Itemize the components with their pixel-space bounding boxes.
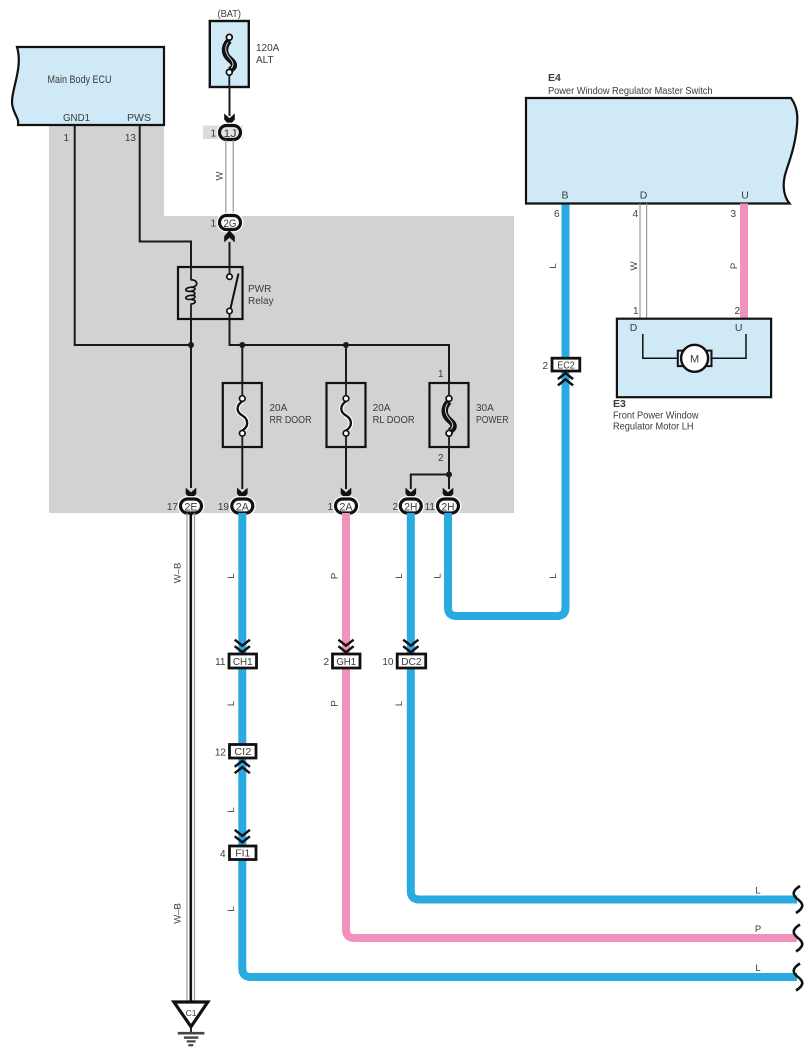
svg-text:1: 1	[438, 369, 444, 380]
W-B wire 2E to ground	[173, 513, 195, 1002]
svg-text:12: 12	[215, 748, 227, 759]
svg-text:2H: 2H	[442, 502, 455, 514]
svg-text:L: L	[226, 701, 237, 706]
svg-text:W: W	[215, 171, 226, 180]
svg-text:CH1: CH1	[233, 657, 253, 668]
svg-text:GH1: GH1	[336, 657, 356, 668]
ground C1	[174, 1002, 208, 1045]
svg-text:L: L	[226, 906, 237, 911]
svg-text:P: P	[755, 924, 761, 935]
svg-text:11: 11	[425, 502, 436, 513]
svg-text:2E: 2E	[185, 502, 198, 514]
chevron into FI1	[235, 830, 250, 843]
svg-text:M: M	[690, 354, 699, 366]
svg-text:POWER: POWER	[476, 415, 509, 426]
junction dot fuse RL DOOR	[343, 342, 349, 348]
svg-text:W–B: W–B	[173, 903, 184, 924]
svg-text:17: 17	[167, 502, 179, 513]
svg-text:10: 10	[382, 657, 394, 668]
svg-text:2A: 2A	[340, 502, 354, 514]
wire fuse RR DOOR to 2A	[241, 447, 243, 489]
wire relay switch to fuse row	[230, 319, 450, 383]
Main Body ECU box	[12, 47, 164, 125]
wire relay coil to connector 2E	[190, 319, 192, 488]
svg-text:120A: 120A	[256, 43, 280, 54]
junction dot coil/GND1	[188, 342, 194, 348]
svg-text:DC2: DC2	[401, 657, 422, 668]
wire 2G arrow to relay	[229, 242, 231, 267]
svg-text:1: 1	[633, 306, 639, 317]
fuse 30A POWER	[430, 369, 509, 464]
chevron up from EC2	[558, 373, 573, 385]
svg-text:EC2: EC2	[557, 360, 575, 371]
svg-text:4: 4	[632, 209, 638, 220]
continuation squiggle P	[794, 925, 803, 952]
svg-text:Regulator Motor LH: Regulator Motor LH	[613, 421, 694, 433]
svg-text:Main Body ECU: Main Body ECU	[48, 74, 112, 86]
svg-text:W: W	[629, 261, 640, 270]
svg-text:L: L	[394, 701, 405, 706]
svg-text:2: 2	[734, 306, 740, 317]
svg-text:L: L	[226, 573, 237, 578]
svg-text:1: 1	[210, 129, 216, 140]
svg-text:P: P	[330, 573, 341, 579]
PWR relay box	[178, 267, 274, 319]
svg-text:D: D	[640, 190, 648, 202]
svg-text:2: 2	[438, 453, 444, 464]
connector GH1	[323, 654, 360, 668]
svg-text:20A: 20A	[373, 403, 391, 414]
svg-text:P: P	[729, 263, 740, 269]
connector 1J	[210, 126, 240, 141]
svg-text:RL DOOR: RL DOOR	[373, 415, 415, 426]
connector DC2	[382, 654, 425, 668]
junction dot below fuse POWER	[446, 472, 452, 478]
E4 Power Window Regulator Master Switch box	[526, 98, 797, 204]
svg-text:GND1: GND1	[63, 112, 90, 124]
arrow into 2E	[186, 488, 197, 500]
wire W from D to motor	[629, 204, 647, 319]
gray harness area main	[49, 216, 514, 513]
relay switch	[227, 267, 239, 319]
chevron into DC2	[403, 640, 418, 653]
svg-text:20A: 20A	[270, 403, 288, 414]
svg-text:D: D	[630, 322, 638, 334]
svg-text:U: U	[741, 190, 749, 202]
svg-text:19: 19	[218, 502, 230, 513]
svg-text:CI2: CI2	[234, 747, 251, 758]
svg-text:6: 6	[554, 209, 560, 220]
chevron into GH1	[338, 640, 353, 653]
wire ALT fuse to 1J	[229, 87, 231, 116]
svg-text:2G: 2G	[224, 218, 237, 230]
blue wire L from 2A(RR) down and right	[242, 513, 797, 977]
continuation squiggle L col3	[794, 886, 803, 913]
connector EC2	[542, 358, 579, 372]
svg-text:L: L	[433, 573, 444, 578]
svg-text:E3: E3	[613, 398, 626, 410]
svg-text:B: B	[561, 190, 568, 202]
svg-text:L: L	[755, 886, 760, 897]
continuation squiggle L col1	[794, 964, 803, 991]
svg-text:RR DOOR: RR DOOR	[270, 415, 312, 426]
pink wire P from U to motor	[729, 204, 744, 319]
connector CH1	[215, 654, 256, 668]
fuse 20A RR DOOR	[223, 383, 312, 447]
relay coil	[185, 267, 196, 319]
svg-text:U: U	[735, 322, 743, 334]
svg-text:2: 2	[542, 361, 548, 372]
svg-text:Relay: Relay	[248, 296, 274, 307]
wire GND1 pin1 to junction	[75, 125, 193, 345]
arrow into 1J	[224, 113, 235, 125]
svg-text:2A: 2A	[236, 502, 250, 514]
blue wire L from 2H pin11 to EC2 riser	[448, 204, 566, 617]
connector 2G	[210, 216, 240, 231]
svg-text:4: 4	[220, 849, 226, 860]
svg-text:PWS: PWS	[127, 112, 151, 124]
svg-text:P: P	[330, 700, 341, 706]
wire fuse RL DOOR to 2A	[345, 447, 347, 489]
svg-text:1J: 1J	[224, 128, 237, 140]
svg-text:13: 13	[125, 133, 137, 144]
svg-text:(BAT): (BAT)	[218, 9, 242, 20]
svg-text:L: L	[226, 807, 237, 812]
motor M	[678, 345, 712, 372]
arrow into 2A (RR)	[237, 488, 248, 500]
svg-text:C1: C1	[186, 1008, 197, 1018]
fuse 20A RL DOOR	[327, 383, 415, 447]
svg-text:FI1: FI1	[235, 849, 250, 860]
svg-text:L: L	[394, 573, 405, 578]
arrow into 2H pin2	[406, 488, 417, 500]
connector 2E	[167, 499, 202, 514]
svg-text:1: 1	[63, 133, 69, 144]
wire to fuse RL DOOR	[345, 345, 347, 383]
svg-text:L: L	[548, 263, 559, 268]
blue wire L from 2H pin2 down and right	[411, 513, 797, 900]
svg-text:L: L	[755, 963, 760, 974]
connector FI1	[220, 846, 256, 860]
svg-text:PWR: PWR	[248, 284, 271, 295]
gray harness area upper	[49, 124, 164, 217]
arrow up from 2G	[224, 230, 235, 242]
wire fuse POWER to 2H pair	[448, 447, 450, 489]
wire W 1J to 2G	[215, 140, 234, 216]
arrow into 2H pin11	[443, 488, 454, 500]
svg-text:E4: E4	[548, 72, 561, 84]
connector 2A (RL)	[327, 499, 356, 514]
svg-text:3: 3	[730, 209, 736, 220]
connector CI2	[215, 745, 256, 759]
svg-text:ALT: ALT	[256, 55, 274, 66]
svg-text:L: L	[548, 573, 559, 578]
motor inner wires	[643, 334, 678, 358]
svg-text:1: 1	[327, 502, 333, 513]
chevron into CH1	[235, 640, 250, 653]
svg-text:2H: 2H	[404, 502, 417, 514]
svg-text:1: 1	[210, 219, 216, 230]
branch wire to connector 2H pin2	[411, 475, 449, 490]
svg-text:W–B: W–B	[173, 563, 184, 584]
connector 2A (RR)	[218, 499, 253, 514]
pink wire P from 2A(RL) down and right	[346, 513, 797, 938]
connector 2H pin11	[425, 499, 459, 514]
svg-text:11: 11	[215, 657, 226, 668]
junction dot fuse RR DOOR	[239, 342, 245, 348]
svg-text:Power Window Regulator Master: Power Window Regulator Master Switch	[548, 85, 713, 97]
svg-text:2: 2	[323, 657, 329, 668]
E3 Front Power Window Regulator Motor LH box	[617, 319, 771, 398]
svg-text:2: 2	[392, 502, 398, 513]
chevron up from CI2	[235, 761, 250, 773]
connector 2H pin2	[392, 499, 421, 514]
wire PWS pin13 to relay coil	[140, 125, 191, 267]
wire to fuse RR DOOR	[241, 345, 243, 383]
gray strip behind connector 1J	[203, 126, 243, 140]
arrow into 2A (RL)	[341, 488, 352, 500]
fuse 120A ALT	[210, 21, 280, 87]
svg-text:30A: 30A	[476, 403, 494, 414]
